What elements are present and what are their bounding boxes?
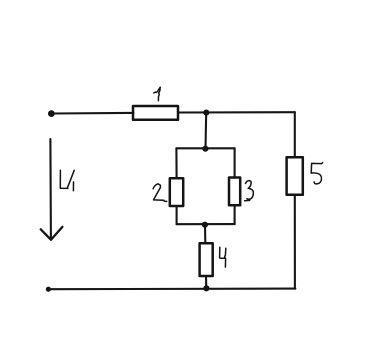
resistor R4	[200, 243, 213, 276]
wire (top-left terminal to R1)	[52, 112, 134, 115]
label 5 (value of R5)	[311, 163, 323, 184]
label 2 (value of R2)	[153, 184, 167, 202]
wire (parallel group top rail)	[176, 147, 234, 149]
node B (junction of R1 output, parallel branch, R5 branch)	[203, 110, 209, 116]
node E (junction of R4 with bottom return wire)	[203, 285, 209, 291]
wire (R2 to bottom rail)	[176, 206, 178, 224]
node D (bottom of parallel group)	[202, 222, 208, 228]
resistor R2	[170, 178, 183, 206]
voltage source arrow U (shaft)	[49, 139, 52, 239]
voltage source arrow U (head)	[41, 227, 63, 240]
wire (parallel group bottom rail)	[177, 223, 235, 225]
wire (left branch, top rail to R2)	[175, 148, 177, 178]
wire (bottom return rail)	[48, 288, 295, 291]
node A (top-left input terminal)	[48, 110, 55, 117]
label 4 (value of R4)	[220, 247, 226, 267]
wire (R3 to bottom rail)	[234, 205, 236, 224]
label U (source voltage)	[60, 170, 74, 191]
wire (parallel group to R4)	[204, 225, 206, 244]
node F (bottom-left return terminal)	[46, 287, 51, 292]
wire (R4 to bottom wire)	[205, 276, 207, 288]
label 1 (value of R1)	[154, 87, 160, 101]
wire (junction B down to parallel group)	[204, 113, 207, 149]
wire (top-right corner down to R5)	[294, 112, 296, 157]
wire (R5 down to bottom-right corner)	[294, 195, 296, 289]
resistor R1	[133, 106, 178, 120]
wire (R1 to top-right corner through junction)	[178, 111, 295, 113]
node C (top of parallel group R2 || R3)	[202, 146, 208, 152]
resistor R5	[287, 157, 303, 195]
wire (right branch, top rail to R3)	[234, 148, 236, 177]
resistor R3	[229, 178, 240, 206]
label 3 (value of R3)	[245, 181, 254, 201]
